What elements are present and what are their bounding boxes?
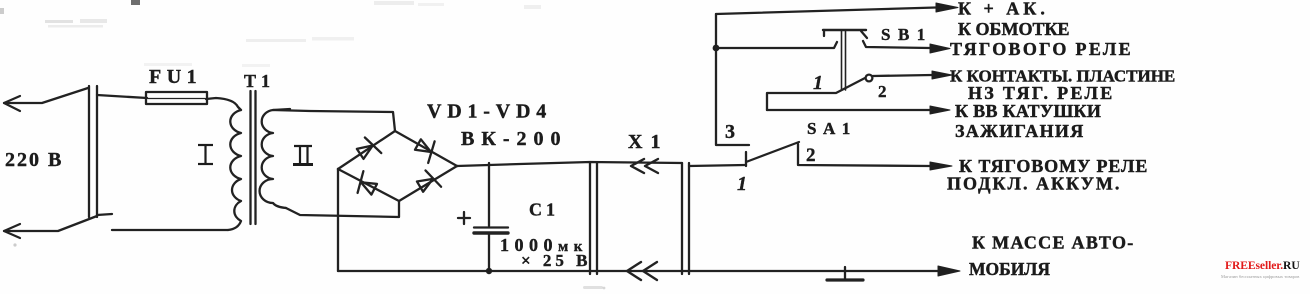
- svg-text:SА1: SА1: [807, 119, 857, 138]
- X1 contact chevrons bottom rail: [627, 262, 657, 280]
- svg-text:FU1: FU1: [149, 66, 202, 88]
- svg-text:ТЯГОВОГО РЕЛЕ: ТЯГОВОГО РЕЛЕ: [950, 39, 1133, 59]
- svg-text:1: 1: [813, 72, 823, 94]
- svg-text:2: 2: [878, 82, 887, 101]
- wire: SA1 plate bottom to ignition coil with arrow: [767, 109, 930, 111]
- svg-text:1: 1: [737, 173, 747, 195]
- transformer T1 secondary winding: [260, 109, 290, 208]
- capacitor C1: [458, 163, 508, 271]
- label I (primary): [198, 145, 213, 164]
- junction dot C1 bottom: [486, 268, 492, 274]
- svg-text:К ВВ КАТУШКИ: К ВВ КАТУШКИ: [955, 101, 1101, 121]
- svg-text:К ОБМОТКЕ: К ОБМОТКЕ: [958, 19, 1070, 39]
- wire: junction to SB1 left contact: [716, 42, 837, 48]
- svg-text:НЗ ТЯГ. РЕЛЕ: НЗ ТЯГ. РЕЛЕ: [968, 83, 1115, 103]
- push button SB1: [823, 30, 867, 90]
- transformer T1 primary winding: [206, 98, 241, 230]
- diode VD4 (lower-right arm): [414, 168, 441, 196]
- wire: mains bottom lead with left arrow: [4, 214, 112, 238]
- svg-text:SB1: SB1: [881, 25, 933, 44]
- svg-text:FREEseller.RU: FREEseller.RU: [1225, 259, 1300, 272]
- svg-text:ВК-200: ВК-200: [461, 128, 568, 150]
- switch SA1 blade: [746, 142, 799, 162]
- svg-text:× 25 В: × 25 В: [521, 251, 592, 270]
- X1 contact chevrons top rail: [631, 159, 658, 173]
- chassis ground symbol: [827, 267, 863, 280]
- arrow: SA1 contact 2 to NC contacts of relay: [932, 71, 952, 79]
- right side destination texts: [947, 0, 1175, 279]
- svg-text:МОБИЛЯ: МОБИЛЯ: [969, 259, 1050, 279]
- svg-text:С1: С1: [529, 200, 559, 220]
- svg-text:ПОДКЛ. АККУМ.: ПОДКЛ. АККУМ.: [947, 174, 1121, 194]
- diode VD2 (upper-right arm): [413, 135, 439, 163]
- wire: secondary top to bridge AC top: [273, 110, 395, 131]
- wire: plug to fuse: [97, 95, 147, 98]
- FREEseller.RU logo: [1221, 259, 1300, 279]
- svg-text:К МАССЕ АВТО-: К МАССЕ АВТО-: [972, 233, 1135, 253]
- switch SA1 upper section plate: [767, 75, 932, 110]
- fuse FU1: [146, 92, 207, 104]
- bridge diamond wires VD1-VD4: [338, 131, 457, 201]
- svg-text:К + АК.: К + АК.: [958, 0, 1049, 19]
- transformer core: [251, 91, 256, 224]
- wire: bottom lead to primary: [112, 229, 228, 231]
- SA1 contact 2 (lower) with wire to traction relay: [798, 144, 930, 166]
- wire: bridge plus (right corner) to X1: [457, 162, 682, 166]
- wire: top lead to battery + with arrow: [716, 8, 936, 15]
- wire: SB1 right contact to relay winding with arrow: [863, 41, 930, 48]
- plug connector (220V) double lines: [89, 86, 97, 217]
- switch SA1 lower section: common pole from X1: [745, 152, 747, 166]
- wire: bottom ground rail: [338, 270, 938, 272]
- label II (secondary): [293, 146, 313, 165]
- diode VD3 (lower-left arm): [353, 171, 379, 199]
- svg-text:Магазин бесплатных цифровых то: Магазин бесплатных цифровых товаров: [1221, 274, 1299, 279]
- junction node: [713, 45, 720, 52]
- svg-text:Х1: Х1: [628, 131, 668, 153]
- wire: battery plus branch vertical: [716, 14, 749, 145]
- connector X1 pair 2: [682, 163, 689, 274]
- svg-text:VD1-VD4: VD1-VD4: [427, 101, 552, 123]
- svg-text:Т1: Т1: [244, 71, 275, 91]
- svg-text:2: 2: [806, 145, 816, 166]
- wire: secondary bottom to bridge AC bottom: [286, 201, 399, 217]
- diode VD1 (upper-left arm): [354, 135, 381, 163]
- svg-text:3: 3: [725, 121, 735, 143]
- arrow: ground rail to car chassis: [938, 266, 960, 276]
- wire: bridge minus (left corner) down to ground rail: [337, 169, 339, 271]
- svg-text:ЗАЖИГАНИЯ: ЗАЖИГАНИЯ: [955, 121, 1085, 141]
- connector X1 pair 1: [590, 163, 597, 274]
- svg-text:220 В: 220 В: [5, 149, 63, 171]
- wire: mains top lead with left arrow: [4, 88, 88, 111]
